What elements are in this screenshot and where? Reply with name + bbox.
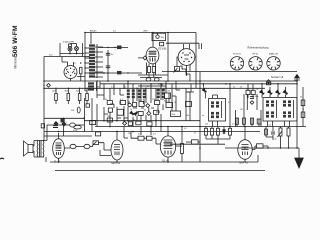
resistor row2 d	[154, 110, 159, 114]
label V3	[54, 161, 61, 164]
lamp dial oval	[70, 123, 76, 127]
label V6	[240, 161, 249, 164]
tube V6 EAF42	[238, 127, 252, 163]
wire chassis vertical	[84, 33, 87, 132]
svg-text:0.1: 0.1	[269, 125, 272, 127]
svg-text:0.5: 0.5	[138, 134, 141, 136]
socket EF 41 bottom view	[249, 57, 262, 70]
box pot left edge	[41, 124, 44, 128]
label above top bus a	[90, 29, 97, 32]
wire R28 link	[252, 146, 268, 150]
diode at box	[202, 88, 206, 93]
svg-text:50k: 50k	[128, 133, 131, 135]
wire IF1 leads	[128, 99, 133, 107]
box on bus	[266, 82, 270, 85]
svg-text:1n: 1n	[147, 86, 149, 88]
wire mid stubs	[97, 95, 160, 118]
resistor row2 c	[138, 112, 143, 116]
wire V1 grid	[138, 57, 147, 59]
wire af bus	[44, 131, 260, 133]
ground arrow	[295, 148, 304, 168]
resistor R28	[257, 144, 264, 148]
svg-text:5n: 5n	[202, 115, 204, 117]
wire ladder taps right	[95, 46, 103, 48]
resistor mid-right2	[229, 128, 232, 135]
wire right extra verticals	[266, 127, 273, 141]
wire heater bus mid	[138, 74, 168, 76]
potentiometer left of U2	[174, 67, 180, 73]
resistor mid-right	[205, 128, 208, 135]
coil lower winding	[88, 82, 94, 90]
svg-text:60: 60	[124, 87, 126, 89]
svg-text:L: L	[66, 122, 67, 124]
resistor mid-right	[211, 128, 214, 135]
resistor R22	[181, 144, 184, 154]
title Minerva 506 W-FM	[12, 25, 19, 68]
svg-text:4×AM 4×FM: 4×AM 4×FM	[63, 41, 74, 44]
wire coil core	[96, 44, 99, 91]
resistor row left	[86, 94, 89, 101]
capacitor diamond row3	[123, 121, 127, 125]
transformer T output	[34, 141, 44, 158]
tube U2 FM oscillator (top view)	[178, 44, 195, 65]
label above top bus b	[143, 30, 148, 32]
diode AM det	[47, 83, 51, 87]
transformer IF2 coil a	[138, 89, 141, 98]
box IF5 output transformer	[263, 98, 297, 122]
node dots	[43, 32, 298, 163]
resistor row3 b	[128, 122, 132, 126]
wire screen bus	[44, 87, 265, 89]
switch contact S1a	[117, 46, 122, 50]
wire hf line	[162, 71, 297, 73]
wire stair mid	[158, 84, 176, 96]
resistor row2 a	[108, 108, 112, 112]
resistor R20	[138, 136, 144, 140]
coil tuner ladder	[89, 44, 95, 77]
wire verticals right of ratio	[172, 88, 190, 120]
wire band line 2	[94, 72, 142, 74]
resistor R32	[287, 128, 290, 136]
resistor right extra	[265, 129, 268, 135]
svg-text:0.5: 0.5	[184, 128, 187, 130]
wire rail x82.5	[82, 43, 84, 57]
wire lamp links	[47, 124, 84, 126]
trimmer row1	[128, 103, 131, 106]
resistor 50k vertical oval	[77, 107, 80, 113]
wire bus y86	[138, 85, 162, 87]
wire stair	[180, 66, 190, 81]
wire r23	[186, 141, 200, 143]
capacitor right column b	[301, 112, 305, 118]
resistor R21	[147, 136, 153, 140]
resistor row1 c	[133, 103, 137, 107]
label socket	[253, 54, 260, 56]
resistor row2 right	[236, 118, 239, 124]
wire vertical x92	[91, 98, 93, 132]
wire v4 aux	[100, 150, 111, 156]
svg-text:EAF 42: EAF 42	[240, 161, 249, 164]
wire right column	[302, 87, 304, 127]
resistor beside U1	[80, 67, 82, 74]
svg-text:R-El: R-El	[172, 114, 176, 116]
wire pot links	[281, 127, 289, 149]
svg-text:506 W-FM: 506 W-FM	[12, 25, 19, 57]
svg-text:1n: 1n	[130, 109, 132, 111]
svg-text:8: 8	[303, 109, 304, 111]
socket EABC 80 bottom view	[267, 57, 280, 70]
capacitor right extra	[271, 132, 275, 134]
wire mid verticals low	[97, 104, 161, 121]
wire IF2 leads	[139, 99, 144, 102]
svg-text:Ratio: Ratio	[164, 100, 168, 103]
diode row d	[283, 90, 288, 95]
socket ECH 81 bottom view	[230, 57, 243, 70]
wire mid bus	[84, 120, 200, 122]
wire jack links	[64, 143, 111, 150]
capacitor right column a	[301, 100, 305, 106]
svg-text:Netzteil 7+8: Netzteil 7+8	[271, 76, 284, 79]
wire ladder top stub	[90, 33, 92, 45]
svg-text:0.1: 0.1	[228, 102, 231, 104]
label input	[63, 41, 74, 44]
capacitor bars	[53, 126, 58, 128]
transformer IF1 coil b	[132, 89, 135, 98]
switch contact S1b	[117, 71, 122, 74]
wire af bus 2	[44, 135, 92, 137]
resistor row2 right	[243, 118, 246, 124]
capacitor block dark	[61, 119, 65, 123]
label row	[52, 90, 57, 92]
svg-text:ECH 81: ECH 81	[159, 49, 168, 51]
wire v5 rowlinks	[131, 138, 160, 144]
svg-text:Röhrenbestückung: Röhrenbestückung	[248, 47, 270, 50]
wire af link	[44, 117, 84, 119]
wire lamp bottom line	[44, 54, 90, 57]
potentiometer P2	[278, 128, 283, 137]
tube V3 EL41	[53, 133, 65, 162]
svg-text:1k: 1k	[233, 87, 235, 89]
wire diode link	[203, 84, 205, 99]
wire left rail	[43, 57, 45, 137]
wire coupling	[170, 143, 225, 145]
svg-text:25k: 25k	[107, 116, 110, 118]
wire left rail2	[59, 43, 61, 57]
wire IF5 leads	[268, 121, 290, 127]
svg-text:0.1: 0.1	[111, 87, 114, 89]
svg-text:8k: 8k	[98, 87, 100, 89]
label V4	[112, 162, 121, 165]
svg-text:470k: 470k	[73, 130, 77, 132]
svg-text:1k: 1k	[194, 133, 196, 135]
wire lamp links	[70, 44, 77, 54]
label V1	[159, 49, 168, 51]
svg-text:0.1: 0.1	[232, 124, 235, 126]
diamond above bus	[267, 80, 271, 84]
resistor V1 base a	[148, 67, 151, 73]
tube V4 EBC41	[111, 132, 123, 163]
box ratio elko	[166, 103, 173, 108]
wire transformer top	[43, 125, 47, 162]
svg-text:5k: 5k	[240, 87, 242, 89]
labels right resistor row	[233, 87, 235, 89]
capacitor row1 b	[120, 101, 125, 105]
wire main anode bus	[44, 80, 297, 82]
resistor row3 a	[107, 118, 112, 122]
svg-text:AM-Ant.: AM-Ant.	[90, 29, 97, 32]
svg-text:Minerva: Minerva	[14, 56, 18, 68]
svg-text:0.3: 0.3	[153, 134, 156, 136]
resistor row left	[78, 94, 81, 101]
wire vertical x63.6	[63, 118, 65, 136]
wire bottom right link	[252, 155, 258, 162]
diode mid-right	[223, 130, 226, 133]
resistor R33	[90, 120, 96, 124]
tube V5 EL41 output	[160, 127, 175, 163]
resistor ratio	[165, 93, 171, 99]
svg-text:8n: 8n	[144, 110, 146, 112]
resistor above right a	[246, 90, 250, 94]
wire diode drops	[262, 84, 286, 98]
wire drops row2	[235, 94, 261, 127]
capacitor diamond row1	[146, 104, 150, 108]
svg-text:15k: 15k	[167, 91, 170, 93]
speaker LS	[24, 141, 34, 156]
capacitor diamond row2	[147, 111, 151, 115]
svg-text:EBC 41: EBC 41	[112, 162, 121, 165]
wire ladder taps left	[85, 47, 89, 49]
wire speaker links	[33, 141, 34, 158]
trimmer box	[152, 33, 166, 40]
label socket	[269, 53, 279, 56]
svg-text:10n: 10n	[186, 115, 189, 117]
wire bus y77.5	[140, 77, 162, 79]
wire box leads	[213, 95, 218, 127]
wire row collect	[206, 135, 230, 144]
capacitor C blocking 2	[106, 66, 111, 68]
svg-text:EABC 80: EABC 80	[269, 53, 279, 56]
diode row b	[268, 90, 273, 95]
resistor top	[160, 42, 164, 46]
svg-text:50: 50	[133, 120, 135, 122]
labels mid field	[105, 99, 108, 101]
box ratio el	[171, 111, 181, 117]
wire V1 base leads	[147, 63, 156, 76]
wire lowest verticals	[97, 121, 161, 135]
wire U2 leads	[177, 57, 196, 75]
resistor R23	[192, 140, 199, 144]
svg-text:25k: 25k	[205, 124, 208, 126]
wire lower bus	[95, 126, 306, 128]
box small left	[86, 104, 90, 107]
svg-text:ECH 81: ECH 81	[233, 54, 241, 56]
wire IF3 leads	[158, 99, 163, 101]
capacitor row1 a	[107, 101, 112, 105]
svg-text:6,3: 6,3	[113, 30, 116, 32]
resistor row2 right	[251, 118, 254, 124]
transformer IF3 coil b	[162, 89, 165, 98]
wire antenna lead	[296, 80, 298, 148]
resistor mid-right	[217, 128, 220, 135]
wire second bus	[100, 83, 297, 85]
wire V5 right	[176, 127, 182, 163]
resistor row left	[67, 94, 70, 101]
capacitor diamond right	[250, 101, 254, 105]
wire x131 drop	[124, 132, 131, 139]
wire bottom return	[55, 170, 265, 172]
resistor V1 base b	[152, 67, 155, 73]
lamp dial L2	[75, 47, 79, 51]
wire V1 base leads 2	[149, 73, 154, 78]
wire vertical x196	[195, 33, 197, 89]
resistor above right b	[251, 90, 255, 94]
diode D row2	[130, 111, 134, 115]
transformer IF2 coil b	[143, 89, 146, 98]
diode D row2b	[134, 111, 138, 115]
svg-text:50: 50	[300, 97, 302, 99]
wire vertical x168	[167, 33, 169, 81]
label socket	[233, 54, 241, 56]
box left small	[96, 132, 101, 136]
resistor row3 d	[147, 122, 152, 126]
labels mid extra	[98, 87, 100, 89]
corner artifact mark	[0, 157, 4, 160]
label tube chart heading	[248, 47, 270, 50]
resistor row left	[55, 94, 58, 101]
svg-text:UKW: UKW	[143, 30, 148, 32]
wire mid verticals	[97, 81, 161, 103]
box IF4 transformer	[209, 99, 226, 122]
capacitor small mid	[186, 102, 192, 107]
svg-text:30k: 30k	[246, 89, 249, 91]
wire vertical x200	[199, 72, 201, 163]
wire vertical x108	[107, 50, 109, 81]
svg-text:100p: 100p	[255, 96, 259, 98]
tube U1 converter (top view)	[62, 57, 77, 79]
wire heater line top	[166, 43, 202, 49]
svg-text:EL 41: EL 41	[54, 161, 61, 164]
capacitor padder oval b	[154, 78, 159, 81]
capacitor diamond a	[54, 122, 58, 126]
capacitor C blocking	[106, 53, 111, 55]
wire mid extra verticals	[100, 81, 194, 111]
wire cathode bus	[50, 161, 252, 163]
tube V1 ECH81	[146, 33, 159, 64]
svg-text:EF 41: EF 41	[253, 54, 260, 56]
resistor oval 470k	[74, 125, 82, 129]
lamp dial L1	[69, 44, 72, 47]
resistor row1 e	[155, 101, 160, 105]
capacitor diamond b	[62, 122, 66, 126]
wire more verticals	[114, 81, 169, 105]
resistor row3 c	[136, 121, 141, 125]
wire drops above	[248, 84, 253, 98]
capacitor padder oval a	[146, 78, 151, 81]
wire U1 leads	[71, 62, 86, 81]
svg-text:50: 50	[275, 139, 277, 141]
potentiometer P vol	[92, 141, 99, 146]
capacitor row2 right	[257, 119, 261, 124]
label V5	[163, 159, 170, 162]
resistor row1 d	[139, 102, 144, 107]
capacitor grid diamond	[143, 56, 147, 60]
label Netzteil	[271, 76, 284, 79]
transformer IF3 coil a	[157, 89, 160, 98]
trimmer C	[156, 35, 159, 38]
diode row a	[260, 90, 265, 95]
wire top bus	[85, 32, 196, 34]
capacitor 100p	[250, 97, 254, 99]
wire right hv	[225, 147, 299, 149]
wire vertical x230	[229, 84, 231, 127]
wire band line 1	[98, 47, 128, 49]
diode row c	[276, 90, 281, 95]
jack J2	[84, 144, 90, 148]
wire drops row	[206, 127, 230, 130]
jack J1	[70, 144, 76, 148]
antenna symbol	[294, 75, 300, 81]
transformer IF1 coil a	[127, 89, 130, 98]
capacitor row2 b	[117, 109, 123, 115]
